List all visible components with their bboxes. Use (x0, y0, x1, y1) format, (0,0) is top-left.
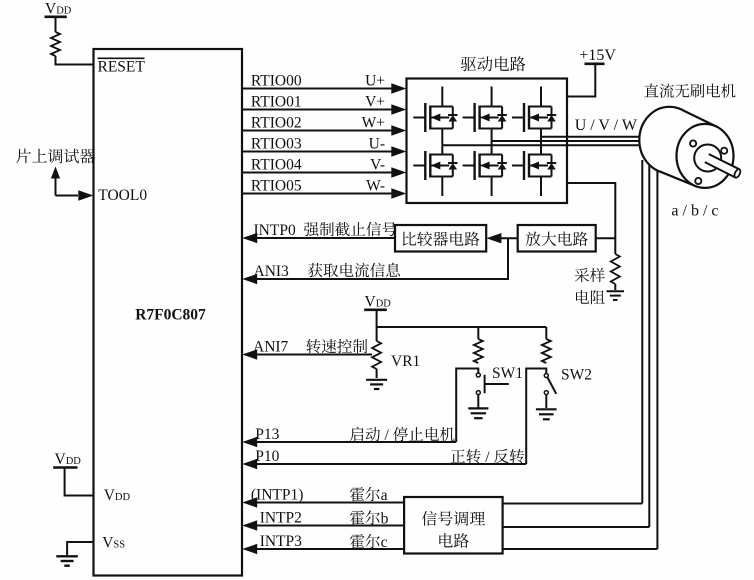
motor M1 shaft (705, 154, 740, 177)
wire RTIO01 to driver (V+) (242, 109, 392, 111)
ground below sampling resistor (607, 290, 625, 292)
svg-text:P13: P13 (255, 426, 279, 443)
svg-text:/: / (485, 449, 490, 466)
wire P10 direction to MCU (257, 463, 526, 465)
wire rail drop to VR1 (376, 327, 378, 341)
wire resistor to RESET pin (56, 56, 94, 65)
svg-text:(INTP1): (INTP1) (251, 487, 304, 504)
svg-text:RESET: RESET (98, 59, 146, 76)
svg-text:RTIO01: RTIO01 (251, 94, 302, 111)
wire Q1 drain stub (441, 87, 443, 107)
svg-text:V+: V+ (365, 94, 385, 111)
debugger double arrow to TOOL0 (55, 177, 57, 196)
wire Q3 source to phase node (540, 129, 542, 137)
wire VSS pin to ground (67, 542, 93, 555)
label 霍尔a hall a (350, 487, 380, 501)
wire hall a from motor (641, 160, 643, 504)
wire hall b from motor (648, 160, 650, 527)
svg-text:P10: P10 (255, 448, 279, 465)
wire INTP2 to MCU (257, 525, 404, 527)
ground at VSS (56, 555, 78, 557)
label 获取电流信息 get current info (308, 263, 400, 278)
signal conditioning title line2 电路 (439, 533, 469, 548)
transistor Q1 high-side MOSFET (413, 117, 425, 119)
resistor R2 sampling 采样电阻 (611, 254, 620, 284)
wire VDD to reset resistor (55, 18, 57, 32)
MCU U1 R7F0C807 outline (94, 49, 243, 576)
wire +15V to driver block (567, 65, 595, 97)
svg-text:RTIO04: RTIO04 (251, 157, 302, 174)
amplifier block 放大电路 box (518, 225, 596, 252)
svg-text:ANI7: ANI7 (253, 339, 289, 356)
transistor Q2 high-side MOSFET (463, 117, 475, 119)
label 霍尔b hall b (350, 510, 380, 524)
motor M1 bolt holes (690, 140, 696, 146)
driver block 驱动电路 box (407, 79, 568, 204)
signal conditioning block 信号调理电路 box (404, 497, 503, 554)
wire Q5 source stub (491, 177, 493, 197)
wire RTIO02 to driver (W+) (242, 130, 392, 132)
wire hall c from motor (656, 160, 658, 549)
svg-text:/: / (385, 427, 390, 444)
svg-text:RTIO05: RTIO05 (251, 178, 302, 195)
svg-text:ANI3: ANI3 (254, 263, 290, 280)
switch SW2 lever (548, 378, 557, 394)
svg-text:a: a (381, 487, 388, 504)
svg-text:a / b / c: a / b / c (671, 203, 718, 220)
comparator block 比较器电路 box (395, 225, 486, 252)
wire ANI3 current tap (257, 238, 508, 279)
label on-chip debugger 片上调试器 (16, 149, 95, 164)
wire VDD rail to switches (377, 311, 547, 327)
wire Q4 source stub (441, 177, 443, 197)
wire Q6 source stub (540, 177, 542, 197)
label 采样 sampling (575, 268, 605, 282)
label 电阻 resistor (576, 290, 605, 304)
transistor Q6 low-side MOSFET (512, 165, 524, 167)
wire Q4 drain to phase node (441, 145, 443, 154)
wire Q2 drain stub (491, 87, 493, 107)
transistor Q4 low-side MOSFET (413, 165, 425, 167)
wire Q1 source to phase node (441, 129, 443, 146)
svg-text:W+: W+ (362, 115, 385, 132)
svg-text:V-: V- (370, 157, 385, 174)
wire RTIO00 to driver (U+) (242, 88, 392, 90)
wire RTIO04 to driver (V-) (242, 172, 392, 174)
wire VR1 to ground (376, 369, 378, 378)
svg-text:U / V / W: U / V / W (575, 117, 638, 134)
svg-text:INTP0: INTP0 (254, 222, 296, 239)
svg-text:c: c (381, 534, 388, 551)
wire hall c into block (503, 548, 658, 550)
wire ANI7 speed input (257, 354, 372, 356)
wire R3 to SW1 and P13 tap (456, 369, 478, 443)
potentiometer VR1 (372, 341, 381, 369)
wire rail drop to SW1 resistor (477, 327, 479, 339)
wire phase W to motor (541, 136, 650, 138)
label 转速控制 speed control (306, 339, 367, 353)
wire Q2 source to phase node (491, 129, 493, 142)
wire RTIO03 to driver (U-) (242, 151, 392, 153)
motor M1 face (677, 124, 734, 188)
wire amplifier input from sampling node (596, 237, 616, 239)
svg-text:VR1: VR1 (391, 353, 420, 370)
svg-text:TOOL0: TOOL0 (98, 187, 147, 204)
svg-text:W-: W- (366, 178, 385, 195)
svg-text:U+: U+ (365, 73, 385, 90)
wire phase V to motor (492, 140, 648, 142)
label 启动/停止电机 start/stop motor (350, 427, 380, 442)
svg-text:SW2: SW2 (561, 367, 592, 384)
label 正转/反转 forward/reverse (451, 449, 481, 463)
wire P13 start/stop to MCU (257, 441, 456, 443)
label 霍尔c hall c (350, 534, 380, 548)
comparator block title (403, 231, 480, 246)
wire SW2 to ground (545, 395, 547, 408)
wire hall b into block (503, 526, 650, 528)
resistor R3 SW1 pull-up (474, 339, 483, 363)
ground below SW1 (468, 407, 488, 409)
svg-text:SW1: SW1 (492, 365, 523, 382)
wire driver to sampling node (567, 183, 615, 254)
svg-text:U-: U- (369, 136, 385, 153)
wire hall a into block (503, 503, 643, 505)
svg-text:b: b (381, 511, 389, 528)
wire R4 to SW2 and P10 tap (526, 369, 546, 465)
svg-text:R7F0C807: R7F0C807 (135, 307, 206, 324)
ground below VR1 (366, 379, 387, 381)
wire Q3 drain stub (540, 87, 542, 107)
svg-text:INTP2: INTP2 (260, 510, 302, 527)
transistor Q5 low-side MOSFET (463, 165, 475, 167)
motor M1 BLDC 直流无刷电机 title (644, 83, 735, 97)
label 强制截止信号 forced stop signal (304, 222, 397, 236)
svg-text:RTIO03: RTIO03 (251, 136, 302, 153)
amplifier block title (526, 232, 588, 247)
wire INTP0 from comparator to MCU (257, 237, 395, 239)
svg-text:INTP3: INTP3 (260, 533, 302, 550)
switch SW1 start/stop contacts (476, 373, 480, 377)
transistor Q3 high-side MOSFET (512, 117, 524, 119)
wire Q5 drain to phase node (491, 141, 493, 155)
svg-text:RTIO02: RTIO02 (251, 115, 302, 132)
switch SW1 actuator (484, 375, 486, 393)
motor M1 body (639, 107, 699, 173)
wire VDD symbol to VDD pin (65, 469, 94, 496)
wire SW1 to ground (477, 395, 479, 408)
wire INTP1 to MCU (257, 502, 404, 504)
switch SW2 direction contacts (544, 374, 548, 378)
wire rail drop to SW2 resistor (545, 327, 547, 339)
svg-text:RTIO00: RTIO00 (251, 73, 302, 90)
signal conditioning title line1 信号调理 (422, 511, 485, 526)
wire sampling resistor to ground (614, 284, 616, 290)
wire Q6 drain to phase node (540, 137, 542, 155)
wire phase U to motor (442, 144, 646, 146)
wire amplifier to comparator (500, 237, 518, 239)
wire RTIO05 to driver (W-) (242, 193, 392, 195)
svg-text:+15V: +15V (579, 47, 616, 64)
resistor R1 reset pull-up (51, 32, 60, 56)
driver block title 驱动电路 (461, 56, 526, 71)
resistor R4 SW2 pull-up (542, 339, 551, 363)
ground below SW2 (536, 408, 557, 410)
wire INTP3 to MCU (257, 548, 404, 550)
motor M1 hub circle (694, 145, 721, 172)
